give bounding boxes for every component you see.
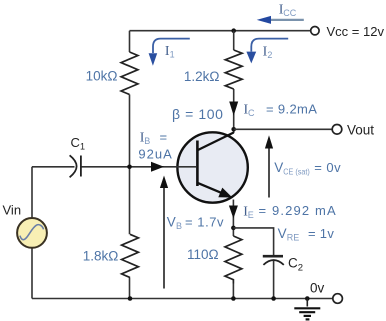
label 110 ohm (187, 247, 219, 262)
wire bottom rail (32, 298, 332, 300)
arrow IC on collector wire (229, 102, 238, 116)
terminal Vcc (311, 27, 319, 35)
svg-text:E: E (248, 210, 254, 220)
label VCE (sat) = 0v (274, 160, 341, 177)
wire left branch vertical (129, 31, 131, 299)
node bottom 1.8k (128, 296, 133, 301)
svg-text:2: 2 (267, 50, 272, 60)
svg-text:1.2kΩ: 1.2kΩ (184, 69, 220, 84)
arrow IB on base wire (151, 162, 164, 172)
svg-text:=: = (160, 129, 168, 144)
svg-text:1.8kΩ: 1.8kΩ (83, 249, 119, 264)
label VB = 1.7v (167, 215, 224, 232)
svg-text:C: C (288, 256, 298, 271)
label 0v (310, 280, 325, 295)
svg-text:B: B (176, 221, 182, 231)
wire collector branch (233, 31, 235, 133)
node bottom C2 (271, 296, 276, 301)
arrow I2 (246, 39, 288, 64)
capacitor C1 (70, 155, 81, 177)
label C2 (288, 256, 303, 274)
label C1 (71, 135, 86, 152)
svg-text:B: B (144, 136, 150, 146)
svg-text:CC: CC (283, 8, 296, 18)
svg-text:2: 2 (298, 262, 303, 273)
svg-text:1: 1 (170, 50, 175, 60)
resistor 1.8k (122, 234, 139, 277)
wire emitter vertical (232, 200, 234, 237)
svg-text:Vcc = 12v: Vcc = 12v (327, 24, 385, 39)
svg-text:C: C (71, 135, 80, 150)
arrow VCE vertical (265, 135, 273, 197)
wire emitter to C2 (233, 228, 273, 256)
svg-text:0v: 0v (310, 280, 325, 295)
wire below C2 (273, 261, 275, 299)
transistor emitter lead with arrow (197, 183, 232, 198)
label ICC (279, 3, 297, 19)
svg-text:Vout: Vout (347, 123, 374, 138)
label IE = 9.292 mA (243, 203, 337, 220)
label I2 (263, 45, 273, 61)
svg-text:RE: RE (287, 232, 300, 242)
node base junction (127, 165, 132, 170)
svg-text:92uA: 92uA (138, 147, 172, 162)
label IB = 92uA (138, 129, 172, 161)
label Vcc = 12v (327, 24, 385, 39)
wire base from C1 to base bar (32, 166, 196, 168)
svg-text:β = 100: β = 100 (172, 106, 224, 122)
svg-text:= 1v: = 1v (308, 226, 334, 241)
arrow IE on emitter wire (229, 206, 238, 219)
svg-text:Vin: Vin (3, 203, 22, 218)
wire top rail (130, 30, 311, 32)
label 1.2k (184, 69, 220, 84)
ground (294, 299, 320, 320)
node bottom ground (305, 296, 310, 301)
label Vout (347, 123, 374, 138)
node junction top of 1.2k branch (231, 28, 236, 33)
svg-text:1: 1 (80, 141, 85, 151)
label I1 (165, 44, 175, 60)
svg-text:= 9.2mA: = 9.2mA (266, 102, 317, 117)
svg-text:110Ω: 110Ω (187, 247, 219, 262)
label VRE = 1v (278, 226, 335, 243)
arrow ICC (257, 16, 304, 24)
wire below 110 resistor (232, 284, 234, 299)
svg-text:V: V (274, 160, 283, 175)
node emitter junction (231, 226, 236, 231)
label 10k (86, 69, 118, 84)
svg-text:= 9.292 mA: = 9.292 mA (259, 203, 337, 218)
resistor 10k (121, 52, 138, 95)
wire Vin branch (31, 167, 33, 299)
resistor 110 (225, 236, 242, 284)
transistor Q1 circle (177, 132, 247, 202)
terminal 0v (333, 294, 343, 304)
label Vin (3, 203, 22, 218)
node collector junction (231, 127, 236, 132)
svg-text:= 1.7v: = 1.7v (185, 215, 224, 230)
svg-text:C: C (248, 108, 255, 118)
resistor 1.2k (225, 50, 242, 89)
transistor base bar (196, 141, 199, 187)
svg-text:10kΩ: 10kΩ (86, 69, 118, 84)
transistor collector lead (197, 133, 233, 151)
capacitor C2 (263, 256, 284, 265)
terminal Vout (332, 125, 342, 135)
label IC = 9.2mA (244, 102, 318, 119)
arrow VB vertical (160, 176, 168, 289)
source Vin circle (17, 218, 47, 248)
label 1.8k (83, 249, 119, 264)
wire Vout (234, 128, 332, 130)
svg-text:CE (sat): CE (sat) (283, 167, 310, 177)
svg-text:V: V (167, 215, 176, 230)
node bottom 110 (231, 296, 236, 301)
label beta = 100 (172, 106, 224, 122)
arrow I1 (149, 39, 190, 66)
svg-text:= 0v: = 0v (314, 160, 341, 175)
svg-text:V: V (278, 226, 287, 241)
